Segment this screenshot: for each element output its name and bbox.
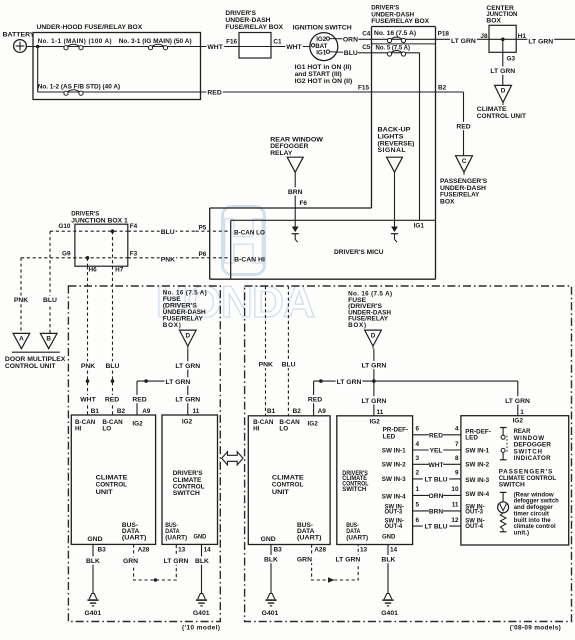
svg-text:SW IN-1: SW IN-1 (465, 448, 489, 455)
svg-text:PNK: PNK (161, 257, 175, 264)
svg-text:A9: A9 (318, 408, 327, 415)
svg-text:RED: RED (132, 397, 146, 404)
svg-text:WHT: WHT (286, 44, 302, 51)
svg-text:CONTROL: CONTROL (96, 482, 127, 489)
svg-text:G401: G401 (84, 610, 101, 617)
svg-text:UNIT: UNIT (272, 489, 290, 496)
svg-text:HI: HI (253, 426, 260, 433)
svg-text:B2: B2 (117, 408, 126, 415)
svg-text:BRN: BRN (288, 189, 303, 196)
svg-text:LT GRN: LT GRN (528, 38, 553, 45)
svg-text:H7: H7 (115, 267, 124, 274)
svg-text:(UART): (UART) (297, 535, 321, 542)
svg-text:LT GRN: LT GRN (337, 379, 362, 386)
svg-text:F4: F4 (130, 223, 138, 230)
svg-text:BOX: BOX (440, 198, 455, 205)
svg-text:IG1: IG1 (414, 223, 425, 230)
svg-text:B2: B2 (293, 408, 302, 415)
svg-text:GND: GND (261, 536, 276, 543)
svg-text:OUT-4: OUT-4 (385, 524, 403, 530)
svg-text:F16: F16 (226, 38, 237, 45)
svg-text:BLK: BLK (86, 558, 100, 565)
svg-text:14: 14 (204, 547, 212, 554)
svg-text:IG2: IG2 (308, 421, 319, 428)
svg-text:C: C (462, 158, 467, 165)
svg-text:F6: F6 (300, 200, 308, 207)
svg-text:No. 5 (7.5 A): No. 5 (7.5 A) (376, 44, 410, 51)
svg-text:BLU: BLU (282, 362, 296, 369)
svg-text:G401: G401 (193, 610, 210, 617)
svg-text:P6: P6 (199, 251, 207, 258)
svg-text:OUT-3: OUT-3 (465, 510, 483, 516)
svg-text:BLK: BLK (264, 557, 278, 564)
svg-text:RED: RED (456, 124, 470, 131)
svg-text:A: A (19, 336, 24, 343)
svg-text:J8: J8 (480, 33, 488, 40)
svg-text:B: B (46, 336, 51, 343)
svg-text:SW IN-2: SW IN-2 (465, 461, 489, 468)
svg-text:F3: F3 (130, 250, 138, 257)
svg-text:1: 1 (416, 486, 420, 493)
svg-text:BLU: BLU (161, 229, 175, 236)
svg-text:CONTROL: CONTROL (272, 482, 303, 489)
svg-text:PNK: PNK (81, 363, 95, 370)
svg-text:8: 8 (455, 455, 459, 462)
svg-text:LT BLU: LT BLU (425, 524, 448, 531)
svg-text:CLIMATE: CLIMATE (477, 106, 507, 113)
svg-text:B1: B1 (267, 408, 276, 415)
svg-text:SWITCH: SWITCH (173, 490, 200, 497)
svg-text:IG1 HOT in ON (II): IG1 HOT in ON (II) (295, 64, 352, 71)
svg-text:RED: RED (105, 397, 119, 404)
svg-text:OUT-4: OUT-4 (465, 524, 483, 530)
svg-text:G3: G3 (507, 56, 516, 63)
svg-text:LT GRN: LT GRN (505, 398, 530, 405)
svg-text:(Rear window: (Rear window (514, 491, 554, 498)
svg-text:2: 2 (416, 470, 420, 477)
svg-text:ORN: ORN (343, 37, 358, 44)
svg-text:CONTROL UNIT: CONTROL UNIT (477, 113, 526, 120)
svg-text:and START (III): and START (III) (295, 71, 342, 78)
svg-text:RELAY: RELAY (270, 150, 293, 157)
svg-text:BATTERY: BATTERY (3, 32, 35, 39)
svg-text:built into the: built into the (514, 517, 552, 524)
svg-text:BLK: BLK (381, 557, 395, 564)
svg-text:FUSE/RELAY BOX: FUSE/RELAY BOX (371, 18, 429, 25)
svg-text:DRIVER'S: DRIVER'S (225, 10, 256, 17)
svg-text:UNIT: UNIT (96, 489, 114, 496)
svg-text:SW IN-3: SW IN-3 (465, 477, 489, 484)
svg-text:BOX: BOX (486, 17, 501, 24)
svg-text:LT GRN: LT GRN (175, 363, 200, 370)
svg-text:SW IN-2: SW IN-2 (382, 462, 406, 469)
svg-text:LT GRN: LT GRN (362, 398, 387, 405)
svg-text:GND: GND (194, 533, 207, 541)
svg-text:B2: B2 (438, 85, 447, 92)
svg-text:9: 9 (455, 470, 459, 477)
svg-text:IG2: IG2 (513, 418, 524, 425)
svg-text:D: D (185, 332, 190, 339)
svg-text:1: 1 (520, 409, 524, 416)
svg-text:INDICATOR: INDICATOR (514, 455, 552, 462)
svg-text:GRN: GRN (123, 558, 138, 565)
svg-text:G9: G9 (62, 250, 71, 257)
svg-text:(UART): (UART) (346, 534, 368, 541)
svg-text:DOOR MULTIPLEX: DOOR MULTIPLEX (5, 356, 66, 363)
svg-text:BOX): BOX) (163, 322, 182, 329)
svg-text:(UART): (UART) (122, 535, 146, 542)
svg-text:LT GRN: LT GRN (175, 397, 200, 404)
svg-text:C1: C1 (273, 38, 282, 45)
svg-text:LT BLU: LT BLU (425, 477, 448, 484)
svg-text:P5: P5 (199, 224, 207, 231)
svg-text:7: 7 (455, 441, 459, 448)
svg-text:WHT: WHT (80, 397, 96, 404)
svg-text:DRIVER'S MICU: DRIVER'S MICU (334, 249, 384, 256)
svg-text:PNK: PNK (14, 297, 28, 304)
svg-text:P18: P18 (438, 31, 450, 38)
svg-text:3: 3 (416, 455, 420, 462)
svg-text:GRN: GRN (297, 557, 312, 564)
svg-text:No. 16 (7.5 A): No. 16 (7.5 A) (374, 30, 416, 37)
svg-text:B3: B3 (274, 547, 283, 554)
svg-text:GND: GND (87, 536, 102, 543)
svg-text:RED: RED (207, 90, 221, 97)
svg-text:10: 10 (451, 486, 459, 493)
svg-text:SW IN-4: SW IN-4 (465, 491, 489, 498)
svg-text:A28: A28 (314, 547, 326, 554)
svg-text:LT GRN: LT GRN (451, 38, 476, 45)
svg-text:D: D (371, 332, 376, 339)
svg-text:LED: LED (465, 435, 478, 442)
svg-text:SW IN-4: SW IN-4 (382, 494, 406, 501)
svg-text:LO: LO (279, 426, 288, 433)
svg-text:5: 5 (416, 502, 420, 509)
svg-text:A28: A28 (138, 547, 150, 554)
svg-text:CLIMATE: CLIMATE (96, 475, 128, 482)
svg-text:F15: F15 (358, 85, 369, 92)
svg-text:6: 6 (416, 517, 420, 524)
svg-text:IG2: IG2 (182, 419, 193, 426)
svg-text:IG2: IG2 (132, 421, 143, 428)
svg-text:14: 14 (390, 547, 398, 554)
svg-text:JUNCTION BOX 1: JUNCTION BOX 1 (71, 217, 128, 224)
svg-text:SWITCH: SWITCH (499, 482, 526, 489)
svg-text:4: 4 (416, 441, 420, 448)
svg-text:IG2 HOT in ON (II): IG2 HOT in ON (II) (295, 78, 353, 85)
svg-text:C4: C4 (362, 31, 371, 38)
svg-text:FUSE/RELAY BOX: FUSE/RELAY BOX (225, 24, 283, 31)
svg-text:RED: RED (308, 397, 322, 404)
svg-text:SW IN-3: SW IN-3 (382, 476, 406, 483)
svg-text:IG1: IG1 (316, 49, 327, 56)
svg-text:H: H (220, 205, 266, 277)
svg-text:BOX): BOX) (348, 322, 367, 329)
svg-text:B3: B3 (98, 547, 107, 554)
svg-text:LT GRN: LT GRN (164, 558, 189, 565)
svg-text:4: 4 (455, 426, 459, 433)
svg-text:13: 13 (178, 547, 186, 554)
svg-text:No. 1-2 (AS F/B STD) (40 A): No. 1-2 (AS F/B STD) (40 A) (38, 84, 120, 91)
svg-text:No. 3-1 (IG MAIN) (50 A): No. 3-1 (IG MAIN) (50 A) (119, 38, 192, 45)
svg-text:('10 model): ('10 model) (182, 625, 220, 632)
svg-text:BLU: BLU (106, 363, 120, 370)
svg-text:B1: B1 (91, 408, 100, 415)
svg-text:LT GRN: LT GRN (490, 68, 515, 75)
svg-text:13: 13 (360, 547, 368, 554)
svg-text:G10: G10 (58, 223, 71, 230)
svg-text:SIGNAL: SIGNAL (378, 147, 406, 154)
svg-text:BLU: BLU (344, 50, 358, 57)
svg-text:LED: LED (383, 433, 396, 440)
svg-text:B-CAN LO: B-CAN LO (234, 229, 265, 236)
svg-text:unit.): unit.) (514, 530, 529, 537)
svg-text:H6: H6 (89, 267, 98, 274)
svg-text:BLU: BLU (43, 297, 57, 304)
svg-text:WHT: WHT (428, 462, 443, 469)
svg-text:SW IN-1: SW IN-1 (382, 447, 406, 454)
svg-text:PNK: PNK (259, 362, 273, 369)
svg-text:D: D (501, 88, 506, 95)
svg-text:11: 11 (377, 409, 384, 416)
svg-text:CLIMATE: CLIMATE (272, 475, 304, 482)
svg-text:(UART): (UART) (165, 534, 187, 541)
svg-text:('08-09 models): ('08-09 models) (510, 625, 561, 632)
svg-text:B-CAN HI: B-CAN HI (234, 256, 265, 263)
svg-text:RED: RED (429, 432, 443, 439)
svg-text:HI: HI (75, 426, 82, 433)
svg-text:C5: C5 (362, 44, 371, 51)
svg-text:11: 11 (193, 408, 200, 415)
svg-text:12: 12 (451, 517, 459, 524)
svg-text:OUT-3: OUT-3 (385, 510, 403, 516)
svg-text:SWITCH: SWITCH (342, 486, 367, 493)
svg-text:YEL: YEL (430, 448, 443, 455)
svg-text:BRN: BRN (429, 509, 444, 516)
svg-text:UNDER-HOOD FUSE/RELAY BOX: UNDER-HOOD FUSE/RELAY BOX (37, 24, 143, 31)
svg-text:IGNITION SWITCH: IGNITION SWITCH (293, 25, 352, 32)
svg-text:ORN: ORN (429, 493, 444, 500)
svg-text:CONTROL UNIT: CONTROL UNIT (5, 363, 56, 370)
svg-text:BLK: BLK (195, 558, 209, 565)
svg-text:LT GRN: LT GRN (336, 557, 361, 564)
svg-text:G401: G401 (262, 610, 279, 617)
svg-text:6: 6 (416, 426, 420, 433)
svg-text:G401: G401 (381, 610, 398, 617)
svg-text:A9: A9 (142, 408, 151, 415)
svg-text:LO: LO (102, 426, 111, 433)
svg-text:LT GRN: LT GRN (362, 363, 387, 370)
svg-text:11: 11 (452, 502, 459, 509)
svg-text:GND: GND (382, 533, 396, 540)
svg-text:IG2: IG2 (370, 419, 381, 426)
svg-text:LT GRN: LT GRN (166, 379, 191, 386)
svg-text:WHT: WHT (207, 44, 223, 51)
